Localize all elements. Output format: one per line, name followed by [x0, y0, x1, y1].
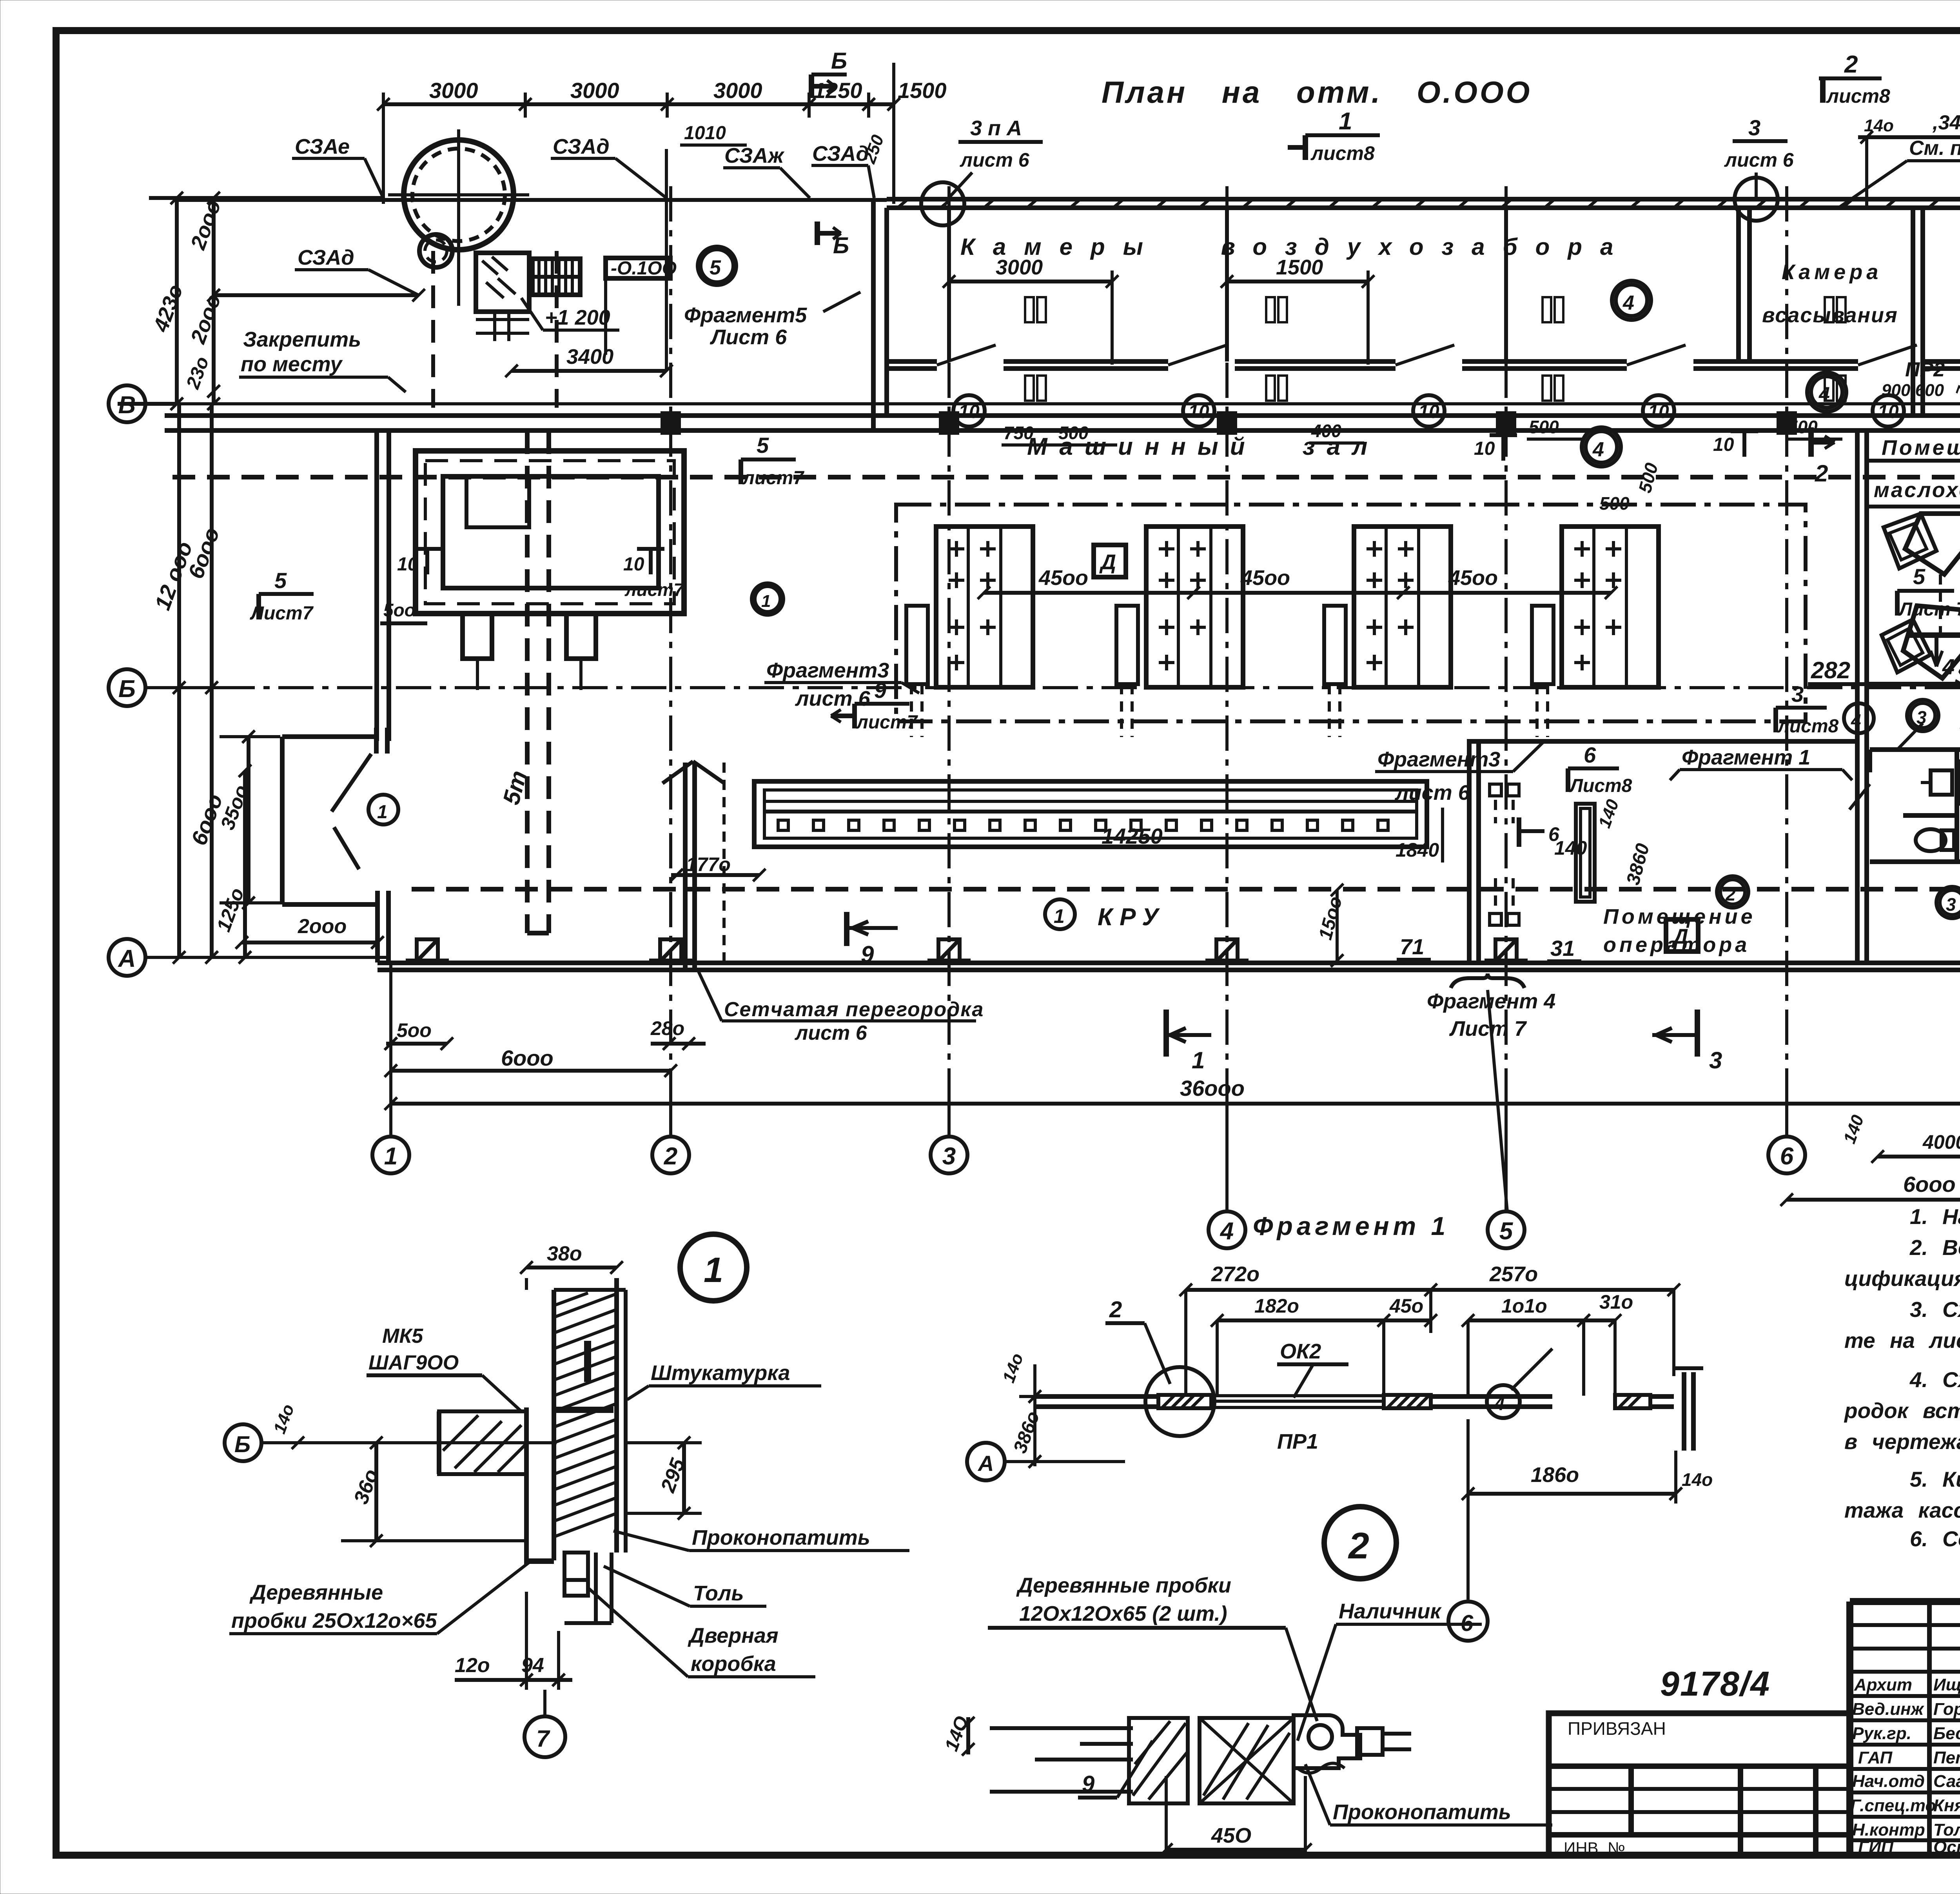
svg-text:9: 9	[1082, 1771, 1094, 1797]
svg-text:1300: 1300	[1955, 697, 1960, 738]
svg-text:лист 6: лист 6	[1724, 149, 1794, 171]
4 arrow mark right	[1909, 632, 1960, 638]
4500 dims	[984, 591, 1611, 595]
dim 3400	[512, 369, 666, 373]
svg-text:Фрагмент3: Фрагмент3	[1377, 748, 1500, 771]
column pairs in chambers	[1025, 297, 1046, 322]
wall hatching	[554, 1293, 617, 1537]
svg-text:те на листе ТП9О4-1-: те на листе ТП9О4-1- -КЖ	[1844, 1328, 1960, 1353]
svg-text:140: 140	[1840, 1112, 1867, 1146]
svg-text:3: 3	[1946, 894, 1956, 915]
svg-text:Княшко: Княшко	[1933, 1796, 1960, 1815]
bath fixtures	[1931, 770, 1952, 795]
svg-text:Фрагмент5: Фрагмент5	[684, 303, 807, 327]
svg-text:182о: 182о	[1254, 1295, 1299, 1317]
svg-text:2: 2	[664, 1143, 677, 1170]
tank СЗАе circle	[388, 129, 529, 306]
svg-text:Ищенко: Ищенко	[1933, 1675, 1960, 1694]
Д door box marks	[1094, 545, 1126, 577]
Б section flag lower	[817, 222, 849, 258]
svg-text:родок встроенных помещений: родок встроенных помещений и камер возду…	[1844, 1398, 1960, 1423]
dash-dot enclosure units	[896, 505, 1806, 721]
svg-text:План на отм. О.ООО: План на отм. О.ООО	[1102, 75, 1532, 109]
section mark 1 bottom	[1163, 1010, 1169, 1057]
svg-text:28о: 28о	[650, 1017, 684, 1039]
svg-text:Д: Д	[1099, 550, 1116, 574]
svg-text:3000: 3000	[996, 256, 1043, 279]
svg-text:12Ох12Ох65 (2 шт.): 12Ох12Ох65 (2 шт.)	[1019, 1602, 1227, 1625]
svg-text:СЗАд: СЗАд	[812, 142, 869, 165]
svg-text:тажа кассет звукопоглощения: тажа кассет звукопоглощения по технологи…	[1844, 1498, 1960, 1522]
svg-text:2: 2	[1725, 884, 1736, 904]
A circle	[967, 1443, 1005, 1480]
svg-text:Проконопатить: Проконопатить	[692, 1526, 870, 1549]
Камера всасывания walls (between 6-7 axes)	[1736, 208, 1741, 361]
svg-text:Горская: Горская	[1933, 1700, 1960, 1719]
svg-text:1. На плане в двойных кружках: 1. На плане в двойных кружках замаркиров…	[1910, 1204, 1960, 1229]
Б section flag top	[811, 48, 847, 98]
door box right	[1294, 1715, 1411, 1773]
svg-text:500: 500	[1634, 461, 1662, 495]
svg-text:Б: Б	[234, 1432, 250, 1457]
svg-text:3: 3	[1748, 115, 1760, 140]
PLAN-GRID	[109, 180, 1960, 1248]
black angle bracket	[584, 1341, 591, 1382]
svg-text:СЗАж: СЗАж	[724, 144, 785, 167]
svg-text:1840: 1840	[1396, 839, 1439, 861]
svg-text:10: 10	[1648, 401, 1669, 422]
drawing	[990, 1718, 1294, 1803]
svg-text:36ооо: 36ооо	[1180, 1076, 1245, 1100]
svg-text:лист8: лист8	[1310, 142, 1375, 164]
svg-text:1: 1	[1339, 108, 1352, 135]
platform + stairs	[476, 149, 666, 371]
svg-text:45О: 45О	[1211, 1824, 1251, 1847]
svg-text:2ооо: 2ооо	[186, 291, 226, 347]
svg-text:4000: 4000	[1922, 1131, 1960, 1153]
svg-text:5. Кирпичную стену в камере: 5. Кирпичную стену в камере всасывания в…	[1910, 1467, 1960, 1491]
svg-text:500: 500	[1529, 417, 1559, 437]
svg-text:Толь: Толь	[693, 1582, 744, 1605]
svg-text:94: 94	[521, 1654, 544, 1677]
svg-text:5: 5	[1913, 564, 1926, 589]
svg-text:Закрепить: Закрепить	[243, 328, 361, 351]
svg-text:282: 282	[1811, 657, 1850, 683]
svg-text:6ооо: 6ооо	[501, 1046, 554, 1070]
section mark 3 bottom	[1695, 1010, 1700, 1057]
svg-text:Бескоровайный: Бескоровайный	[1933, 1724, 1960, 1743]
svg-text:Толоченко: Толоченко	[1933, 1820, 1960, 1840]
columns on B wall	[406, 411, 1797, 961]
LEFT vertical dimension chains	[118, 192, 384, 964]
equipment unit 1	[906, 527, 1033, 737]
svg-text:лист 6: лист 6	[795, 687, 871, 710]
svg-text:386о: 386о	[1010, 1409, 1044, 1456]
svg-text:Петровский: Петровский	[1933, 1748, 1960, 1767]
svg-text:4. Схемы расположения железо: 4. Схемы расположения железобетонных сте…	[1909, 1367, 1960, 1392]
circled 3 double left	[1907, 700, 1938, 731]
svg-text:ИНВ. №: ИНВ. №	[1564, 1839, 1625, 1857]
svg-text:Лист8: Лист8	[1569, 775, 1632, 796]
KRU strip	[754, 781, 1427, 847]
left horizontal sub-dim line y753	[214, 293, 419, 297]
svg-text:Фрагмент 4: Фрагмент 4	[1427, 990, 1555, 1013]
svg-text:31о: 31о	[1599, 1291, 1633, 1313]
svg-text:10: 10	[1878, 401, 1899, 422]
svg-text:1: 1	[377, 802, 388, 823]
svg-text:6ооо: 6ооо	[1903, 1172, 1956, 1197]
svg-text:9: 9	[861, 941, 874, 968]
svg-text:3 п А: 3 п А	[970, 116, 1022, 140]
svg-text:Дверная: Дверная	[688, 1624, 779, 1647]
10 circles	[953, 395, 1904, 427]
-0.100 box	[606, 258, 670, 278]
svg-text:14о: 14о	[270, 1402, 298, 1436]
top wall chambers	[887, 197, 1960, 202]
dashed boundary above A wall	[412, 887, 1960, 892]
svg-text:Н.контр: Н.контр	[1852, 1820, 1925, 1840]
svg-text:А: А	[118, 945, 136, 972]
svg-text:Сетчатая перегородка: Сетчатая перегородка	[724, 998, 984, 1021]
svg-text:Рук.гр.: Рук.гр.	[1852, 1724, 1911, 1743]
9 flag near KRU	[844, 912, 849, 946]
svg-text:125о: 125о	[212, 885, 249, 935]
signature table	[1927, 1602, 1932, 1855]
dashed line below	[172, 475, 1960, 479]
svg-text:-О.1ОО: -О.1ОО	[611, 258, 677, 279]
svg-text:СЗАд: СЗАд	[553, 135, 610, 158]
svg-text:А: А	[977, 1451, 994, 1476]
svg-text:1500: 1500	[1276, 256, 1323, 279]
svg-text:всасывания: всасывания	[1762, 303, 1898, 327]
svg-text:Штукатурка: Штукатурка	[651, 1361, 790, 1385]
svg-text:3000: 3000	[429, 78, 478, 103]
svg-text:5: 5	[1499, 1218, 1514, 1245]
circled 5 fragment mark	[701, 249, 733, 282]
machine hall north wall (B)	[165, 413, 1960, 418]
separating wall machine hall / right rooms	[1855, 430, 1860, 963]
outer	[1850, 1598, 1960, 1605]
svg-text:3. Схему расположения подземны: 3. Схему расположения подземных конструк…	[1910, 1297, 1960, 1322]
svg-text:пробки 25Ох12о×65: пробки 25Ох12о×65	[231, 1609, 437, 1633]
svg-text:цификация элементов к плану да: цификация элементов к плану даны на лист…	[1844, 1266, 1960, 1291]
svg-text:Г.спец.то: Г.спец.то	[1850, 1796, 1936, 1815]
36000 dim	[391, 1102, 1960, 1106]
svg-text:5оо: 5оо	[383, 600, 416, 620]
svg-text:9: 9	[874, 678, 886, 703]
svg-text:1: 1	[704, 1251, 723, 1290]
svg-text:Помещение: Помещение	[1882, 436, 1960, 459]
svg-text:186о: 186о	[1531, 1463, 1579, 1487]
svg-text:СЗАе: СЗАе	[295, 135, 350, 158]
svg-text:2ооо: 2ооо	[298, 915, 347, 938]
axis lines	[145, 404, 1960, 957]
bathroom walls	[1870, 750, 1960, 863]
svg-text:лист7: лист7	[856, 712, 918, 733]
svg-text:2: 2	[1109, 1297, 1122, 1322]
svg-text:Фрагмент3: Фрагмент3	[766, 659, 889, 682]
svg-text:по месту: по месту	[241, 352, 343, 376]
svg-text:45оо: 45оо	[1240, 566, 1290, 590]
door swings chambers	[937, 345, 1917, 365]
protrusion entrance	[282, 728, 388, 962]
svg-text:2: 2	[1815, 460, 1828, 487]
svg-text:45оо: 45оо	[1038, 566, 1088, 590]
operator room	[1467, 739, 1472, 963]
circled 1 floor mark left	[368, 795, 398, 824]
pentagon tank 2	[1882, 606, 1960, 678]
svg-text:5оо: 5оо	[397, 1019, 432, 1041]
Закрепить по месту	[241, 328, 361, 376]
svg-text:2. Ведомость проемов дверей, в: 2. Ведомость проемов дверей, ворот и пер…	[1909, 1235, 1960, 1260]
svg-text:3000: 3000	[570, 78, 619, 103]
svg-text:12о: 12о	[455, 1654, 490, 1677]
svg-text:10: 10	[958, 401, 980, 422]
svg-text:45о: 45о	[1389, 1295, 1423, 1317]
svg-text:Машинный зал: Машинный зал	[1027, 433, 1379, 460]
svg-text:4: 4	[1818, 383, 1830, 405]
svg-text:6: 6	[1780, 1143, 1794, 1170]
1770 dim	[671, 873, 759, 877]
svg-text:10: 10	[1188, 401, 1209, 422]
svg-text:14о: 14о	[999, 1351, 1027, 1385]
Б circle + line	[225, 1424, 261, 1461]
Фрагмент3 лист6 left	[752, 583, 783, 615]
7 circle	[524, 1716, 565, 1757]
КРУ label	[1045, 899, 1075, 929]
svg-text:ПРИВЯЗАН: ПРИВЯЗАН	[1568, 1718, 1666, 1739]
svg-text:10: 10	[1418, 401, 1439, 422]
svg-text:Лист 7: Лист 7	[1449, 1017, 1527, 1041]
svg-text:маслохозяйства: маслохозяйства	[1874, 478, 1960, 502]
svg-text:2: 2	[1348, 1525, 1369, 1567]
svg-text:3: 3	[1791, 682, 1804, 706]
svg-text:2: 2	[1844, 51, 1858, 78]
circled 3 bottom right room	[1936, 887, 1960, 918]
295 dim	[682, 1443, 686, 1513]
right T-wall	[1682, 1372, 1686, 1451]
svg-text:272о: 272о	[1211, 1262, 1259, 1286]
svg-text:31: 31	[1550, 936, 1575, 961]
svg-text:Саакьянц: Саакьянц	[1933, 1772, 1960, 1791]
6000 dim axis1-2	[391, 1069, 671, 1073]
MK5 strip hatched	[439, 1411, 526, 1474]
dashed verticals upper-left zone	[431, 251, 435, 408]
svg-text:МК5: МК5	[382, 1325, 423, 1347]
svg-text:257о: 257о	[1489, 1262, 1538, 1286]
svg-text:5: 5	[274, 568, 287, 593]
svg-text:3: 3	[1709, 1047, 1722, 1073]
svg-text:1010: 1010	[684, 123, 726, 143]
svg-text:Б: Б	[833, 233, 849, 258]
svg-text:4: 4	[1622, 292, 1634, 314]
svg-text:9178/4: 9178/4	[1660, 1664, 1770, 1703]
svg-text:23о: 23о	[182, 354, 213, 392]
WALLS	[165, 199, 1960, 970]
svg-text:3: 3	[942, 1143, 956, 1170]
vestibule small squares column	[1490, 784, 1519, 925]
labels СЗАе СЗАд	[295, 135, 869, 269]
svg-text:Лист 6: Лист 6	[710, 325, 787, 349]
svg-text:5: 5	[710, 256, 721, 279]
svg-text:Б: Б	[118, 676, 136, 703]
svg-text:Деревянные: Деревянные	[249, 1581, 383, 1604]
circled 4 left	[1844, 703, 1874, 733]
svg-text:1250: 1250	[813, 78, 862, 103]
A wall bottom	[377, 963, 1960, 970]
top dimension row	[377, 63, 947, 377]
svg-text:1500: 1500	[898, 78, 947, 103]
12000 / 6000 / 3500 / 1250 chain	[177, 404, 181, 957]
gap + pier 3	[1615, 1395, 1650, 1408]
svg-text:10: 10	[1474, 438, 1495, 459]
svg-text:Деревянные пробки: Деревянные пробки	[1016, 1574, 1231, 1597]
circle 6	[1448, 1602, 1488, 1641]
svg-text:ШАГ9ОО: ШАГ9ОО	[368, 1351, 459, 1374]
svg-text:14о: 14о	[1682, 1469, 1713, 1490]
svg-text:6: 6	[1584, 743, 1596, 767]
wall band	[1035, 1394, 1158, 1399]
svg-text:коробка: коробка	[691, 1652, 776, 1676]
svg-text:1: 1	[1054, 905, 1065, 927]
svg-text:4: 4	[1592, 438, 1604, 461]
svg-text:КРУ: КРУ	[1098, 904, 1165, 931]
circled 4 floor marks	[1616, 285, 1647, 316]
2000 dim	[242, 941, 377, 944]
left tank room	[416, 451, 684, 690]
door frame bottom	[564, 1553, 612, 1623]
svg-text:Фрагмент 1: Фрагмент 1	[1682, 746, 1810, 769]
dim 3000 inside chambers	[949, 280, 1112, 283]
svg-text:Наличник: Наличник	[1339, 1600, 1442, 1623]
chambers bottom wall y930 with gaps	[887, 361, 1960, 369]
svg-text:в чертежах ТП 9О4-1- -КЖ: в чертежах ТП 9О4-1- -КЖ	[1844, 1429, 1960, 1454]
svg-text:1: 1	[761, 592, 771, 611]
svg-text:5: 5	[757, 433, 769, 458]
360 dim	[374, 1443, 378, 1541]
svg-text:10: 10	[1713, 434, 1734, 455]
svg-text:38о: 38о	[547, 1242, 582, 1265]
axis letter circles	[109, 385, 145, 976]
svg-text:423о: 423о	[149, 281, 188, 335]
svg-text:4: 4	[1494, 1394, 1505, 1415]
svg-text:ПР1: ПР1	[1277, 1430, 1318, 1453]
svg-text:140: 140	[1595, 797, 1622, 830]
svg-text:ГАП: ГАП	[1858, 1748, 1893, 1767]
privyazan box	[1549, 1713, 1850, 1855]
svg-text:ГИП: ГИП	[1858, 1838, 1894, 1857]
svg-text:3000: 3000	[713, 78, 762, 103]
wall to axis6	[1431, 1394, 1552, 1399]
svg-text:4: 4	[1220, 1218, 1234, 1245]
svg-text:оператора: оператора	[1603, 933, 1750, 957]
svg-text:Осташевский: Осташевский	[1933, 1838, 1960, 1857]
svg-text:6: 6	[1548, 823, 1560, 845]
svg-text:лист8: лист8	[1826, 85, 1890, 107]
svg-text:Б: Б	[831, 48, 847, 74]
axis circles bottom 1-7	[372, 1137, 1960, 1248]
svg-text:,3460: ,3460	[1932, 111, 1960, 134]
door 6 vestibule	[1519, 797, 1653, 902]
svg-text:4: 4	[1851, 710, 1861, 731]
pier 1 hatched w/ circle detail 2	[1158, 1395, 1211, 1408]
svg-text:3860: 3860	[1622, 841, 1653, 887]
svg-text:15оо: 15оо	[1315, 894, 1346, 942]
svg-text:5т: 5т	[498, 768, 532, 807]
svg-text:Камера: Камера	[1782, 260, 1882, 284]
svg-text:Вед.инж: Вед.инж	[1852, 1700, 1925, 1719]
svg-text:10: 10	[623, 554, 644, 575]
svg-text:Проконопатить: Проконопатить	[1333, 1800, 1511, 1824]
chamber partitions	[949, 208, 1506, 361]
svg-text:лист8: лист8	[1777, 716, 1839, 737]
svg-text:Архит: Архит	[1854, 1675, 1912, 1694]
left outer wall of hall	[374, 430, 379, 741]
svg-text:7: 7	[536, 1725, 550, 1752]
KRU room left wall	[683, 763, 688, 971]
svg-text:71: 71	[1400, 934, 1424, 959]
left thin top line	[174, 198, 887, 202]
pentagon tank 1	[1884, 514, 1960, 635]
svg-text:45оо: 45оо	[1448, 566, 1498, 590]
pier 2 hatched	[1384, 1395, 1431, 1408]
svg-text:14о: 14о	[1864, 116, 1894, 135]
window OK2 opening	[1211, 1394, 1384, 1397]
small dims under chamber wall	[1004, 417, 1818, 443]
door swings bath	[1897, 723, 1923, 750]
svg-text:1о1о: 1о1о	[1501, 1295, 1547, 1317]
2 section mark left of maslo	[1808, 427, 1814, 457]
svg-text:Нач.отд: Нач.отд	[1852, 1772, 1925, 1791]
dim 1500 inside chambers	[1227, 280, 1368, 283]
10 arrow small dims in hall	[397, 434, 1734, 575]
svg-text:ОК2: ОК2	[1280, 1340, 1321, 1363]
main wall verticals	[525, 1278, 528, 1290]
svg-text:Фрагмент 1: Фрагмент 1	[1253, 1211, 1449, 1240]
svg-text:СЗАд: СЗАд	[298, 246, 354, 269]
svg-text:1: 1	[384, 1143, 397, 1170]
svg-text:лист 6: лист 6	[794, 1022, 867, 1044]
svg-text:лист7: лист7	[742, 468, 805, 488]
svg-text:14250: 14250	[1102, 824, 1163, 848]
corner G-wall	[871, 199, 876, 430]
5 лист7 marks	[250, 568, 314, 624]
svg-text:лист 6: лист 6	[960, 149, 1030, 171]
svg-text:2ооо: 2ооо	[186, 197, 226, 253]
svg-text:1: 1	[1192, 1047, 1205, 1073]
5t crane dashed track	[498, 431, 549, 933]
svg-text:См. примечания п.5: См. примечания п.5	[1909, 137, 1960, 160]
svg-text:6. Сечение А-А замаркировано: 6. Сечение А-А замаркировано на листе 8 …	[1910, 1527, 1960, 1551]
maslo room band	[1865, 459, 1960, 463]
